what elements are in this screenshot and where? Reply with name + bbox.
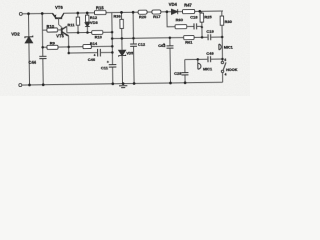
capacitor C19 [208,34,211,40]
wire V2 [41,14,44,85]
svg-text:4: 4 [225,72,227,76]
svg-text:R15: R15 [96,5,104,10]
svg-text:R11: R11 [67,22,75,27]
bus wire [112,37,222,39]
svg-text:C46: C46 [88,57,96,62]
svg-text:VD5: VD5 [126,51,133,55]
svg-text:C19: C19 [206,29,214,34]
capacitor C44 [39,56,46,58]
svg-text:R17: R17 [153,14,161,19]
resistor R30 [220,16,224,25]
svg-text:6: 6 [224,58,226,62]
svg-text:C18: C18 [190,14,198,19]
svg-text:R25: R25 [204,14,212,19]
resistor R11 [77,13,79,33]
svg-text:C62: C62 [158,43,166,48]
resistor R9 [47,45,58,49]
wire VT5 emitter [68,36,70,53]
svg-text:MIC1: MIC1 [203,67,212,71]
capacitor C12 [130,44,137,46]
top rail [23,11,223,14]
transistor VT5 [62,26,69,36]
svg-text:R30: R30 [225,19,233,24]
svg-text:R61: R61 [185,39,193,44]
mic terminal MIC1 upper [219,44,221,50]
diode VD3 [85,23,90,27]
svg-text:R20: R20 [139,14,147,19]
capacitor C18 [187,25,194,27]
resistor R25 [201,11,203,37]
svg-text:VD4: VD4 [169,2,178,7]
resistor R15 [94,10,106,14]
resistor R14 [83,45,91,49]
wire V1 [28,14,31,85]
svg-text:R10: R10 [46,24,54,29]
svg-text:R14: R14 [90,41,98,46]
svg-text:+: + [107,60,109,64]
capacitor C49 [208,56,211,62]
svg-text:MIC1: MIC1 [224,45,233,49]
diode VD4 [171,9,177,14]
wire W2 C46 [69,51,113,54]
wire W1 R9 R14 [43,45,113,48]
resistor R10 [42,29,61,31]
svg-text:C44: C44 [28,60,36,65]
wire V4 C12 [132,12,135,83]
svg-text:C12: C12 [138,42,146,47]
wire W3 C49 [185,58,223,61]
ground [119,86,127,88]
resistor R20 [138,10,147,14]
switch HOOK [221,37,223,61]
svg-text:C11: C11 [101,65,109,70]
svg-text:VD2: VD2 [11,32,20,37]
svg-text:VT6: VT6 [55,5,63,10]
resistor R13 [92,31,103,35]
svg-text:R47: R47 [184,2,192,7]
capacitor C28 [184,60,186,83]
resistor R12 [86,13,88,23]
svg-text:HOOK: HOOK [226,68,238,72]
svg-text:R9: R9 [50,40,56,45]
capacitor C46 [98,49,101,57]
capacitor C11 electrolytic on V3 [109,65,117,68]
bottom rail [22,82,223,85]
resistor R17 [152,10,161,14]
capacitor C62 [169,38,172,83]
mic terminal MIC1 lower [197,59,199,63]
wire top right corner down [221,11,223,16]
resistor R60 [175,25,187,29]
zener VD5 [119,50,126,57]
svg-text:VD3: VD3 [90,20,99,25]
node wire VT5 collector [67,26,92,33]
wire from rail dot down to W4 [167,12,175,27]
svg-text:R13: R13 [95,34,103,39]
svg-text:C49: C49 [206,51,214,56]
svg-text:VT5: VT5 [56,33,64,38]
svg-text:C28: C28 [174,71,182,76]
svg-text:R60: R60 [176,17,184,22]
junction dots [27,10,224,87]
zener VD2 [25,36,33,43]
terminal top-left [19,12,22,15]
svg-text:R36: R36 [113,14,121,19]
wire V3 [111,13,114,84]
resistor R61 [184,35,194,39]
resistor R47 [182,9,194,13]
transistor VT6 [53,13,64,27]
resistor R36 [121,12,123,38]
terminal bottom-left [19,84,22,87]
